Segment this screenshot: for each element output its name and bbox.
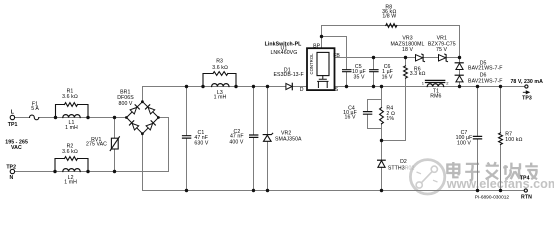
svg-text:BAV21WS-7-F: BAV21WS-7-F xyxy=(468,79,503,85)
node TP3 terminal xyxy=(525,85,528,88)
svg-text:75 V: 75 V xyxy=(436,47,447,53)
node BP branch junction xyxy=(320,35,323,38)
svg-text:1%: 1% xyxy=(386,116,394,122)
svg-text:SMAJ350A: SMAJ350A xyxy=(275,137,302,143)
inductor L1 xyxy=(63,115,80,118)
transformer T1 xyxy=(426,80,445,86)
svg-text:VAC: VAC xyxy=(11,145,22,151)
diode D2 xyxy=(378,160,386,167)
svg-text:3.3 kΩ: 3.3 kΩ xyxy=(410,71,426,77)
wire C1 column xyxy=(186,87,188,191)
svg-text:ES3DB-13-F: ES3DB-13-F xyxy=(273,72,303,78)
svg-text:78 V, 230 mA: 78 V, 230 mA xyxy=(510,79,543,85)
svg-text:TP2: TP2 xyxy=(6,164,16,170)
wire main rail right xyxy=(335,86,525,88)
wire R7 column xyxy=(500,87,502,191)
svg-text:1 mH: 1 mH xyxy=(214,95,227,101)
wire BP to C5 branch xyxy=(322,37,347,87)
node TP2 terminal xyxy=(10,169,14,173)
node C1 bottom / return rail xyxy=(185,189,188,192)
svg-text:16 V: 16 V xyxy=(345,114,356,120)
node R3-L3 left xyxy=(201,85,204,88)
node RV1 top / L line xyxy=(113,116,116,119)
capacitor C7 xyxy=(473,136,481,139)
svg-text:D6: D6 xyxy=(480,72,487,78)
svg-text:D: D xyxy=(300,87,304,93)
node R1-L1 left / L line xyxy=(54,116,57,119)
svg-text:5 A: 5 A xyxy=(31,106,39,112)
svg-text:TP3: TP3 xyxy=(522,95,532,101)
svg-text:1: 1 xyxy=(422,80,425,85)
wire R6 leads xyxy=(382,58,406,141)
svg-text:S: S xyxy=(335,87,339,93)
node C5 bottom / source rail xyxy=(345,85,348,88)
svg-text:FB: FB xyxy=(333,53,340,59)
wire D2 leads xyxy=(381,141,383,191)
wire N line xyxy=(15,118,169,172)
svg-text:3.6 kΩ: 3.6 kΩ xyxy=(62,149,78,155)
diode D1 xyxy=(286,83,292,89)
svg-text:400 V: 400 V xyxy=(229,139,243,145)
node TP1 terminal xyxy=(10,115,14,119)
capacitor C6 xyxy=(370,70,378,72)
svg-text:N: N xyxy=(9,175,13,181)
svg-text:100 V: 100 V xyxy=(457,140,471,146)
wire L line xyxy=(15,117,127,119)
node R6 bottom joins D2 column xyxy=(380,139,383,142)
svg-text:RM6: RM6 xyxy=(430,94,441,100)
wire FB line xyxy=(335,57,460,59)
svg-text:3.6 kΩ: 3.6 kΩ xyxy=(212,65,228,71)
node C6 bottom / source rail xyxy=(372,85,375,88)
node VR2 top / DC bus xyxy=(266,85,269,88)
bridge rectifier BR1 xyxy=(127,102,159,134)
wire bridge top riser xyxy=(142,87,144,102)
node zener string / D5 top xyxy=(458,56,461,59)
svg-text:100 kΩ: 100 kΩ xyxy=(505,137,522,143)
capacitor C4 xyxy=(364,112,372,115)
svg-text:2: 2 xyxy=(446,80,449,85)
svg-text:1 mH: 1 mH xyxy=(64,180,77,186)
resistor R7 xyxy=(499,133,503,145)
watermark CJK glyphs xyxy=(447,162,537,180)
svg-text:STTH3R02: STTH3R02 xyxy=(388,165,415,171)
wire C2 column xyxy=(253,87,255,191)
resistor R2 xyxy=(55,157,88,172)
node C6 top / FB line xyxy=(372,56,375,59)
wire bottom rail xyxy=(143,190,524,192)
resistor R1 xyxy=(56,103,89,118)
node R7 top / output line xyxy=(499,85,502,88)
node R2-L2 right / N line xyxy=(86,170,89,173)
svg-text:18 V: 18 V xyxy=(402,47,413,53)
wire main rail left xyxy=(143,86,308,88)
capacitor C1 xyxy=(183,136,191,138)
node C7 top / output line xyxy=(476,85,479,88)
svg-text:1/8 W: 1/8 W xyxy=(382,14,396,20)
varistor RV1 xyxy=(110,137,119,151)
node C2 top / DC bus xyxy=(252,85,255,88)
svg-text:1 mH: 1 mH xyxy=(65,125,78,131)
node D6 bottom / output line xyxy=(458,85,461,88)
svg-text:16 V: 16 V xyxy=(382,75,393,81)
node D2 bottom / return rail xyxy=(380,189,383,192)
inductor L2 xyxy=(63,169,80,172)
svg-text:CONTROL: CONTROL xyxy=(309,53,314,75)
node VR2 bottom / return rail xyxy=(266,189,269,192)
svg-text:R3: R3 xyxy=(216,58,223,64)
wire VR2 column xyxy=(267,87,269,191)
arrow under TP3 xyxy=(523,91,529,94)
wire top rail BP-R8 xyxy=(322,26,460,58)
resistor R3 xyxy=(203,72,236,87)
resistor R6 xyxy=(404,66,408,78)
capacitor C2 xyxy=(250,135,258,137)
wire C4 R4 branch xyxy=(368,87,382,141)
node R3-L3 right xyxy=(234,85,237,88)
svg-text:www.elecfans.com: www.elecfans.com xyxy=(446,177,554,191)
zener VR1 xyxy=(439,54,448,62)
svg-text:PI-6890-030012: PI-6890-030012 xyxy=(475,194,510,200)
svg-text:D2: D2 xyxy=(400,159,407,165)
svg-text:LNK460VG: LNK460VG xyxy=(270,50,297,56)
diode D6 xyxy=(455,75,463,82)
wire RV1 column xyxy=(114,118,116,172)
watermark logo circle xyxy=(410,160,444,194)
node RV1 bottom / N line xyxy=(113,170,116,173)
node R6 top / FB line xyxy=(404,56,407,59)
svg-text:BAV21WS-7-F: BAV21WS-7-F xyxy=(468,66,503,72)
node C7 bottom / return rail xyxy=(476,189,479,192)
node C1 top / DC bus xyxy=(185,85,188,88)
node C4-R4 tap / source rail xyxy=(380,85,383,88)
wire C6 column xyxy=(373,58,375,87)
node R2-L2 left / N line xyxy=(53,170,56,173)
svg-text:TP1: TP1 xyxy=(8,122,18,128)
svg-text:BP: BP xyxy=(313,43,321,49)
zener VR3 xyxy=(416,54,425,62)
wire bridge bottom riser xyxy=(142,134,144,191)
svg-text:35 V: 35 V xyxy=(354,75,365,81)
op-amp U1 LinkSwitch-PL box xyxy=(307,48,335,90)
node TP4 terminal xyxy=(524,189,527,192)
wire C7 column xyxy=(477,87,479,191)
svg-text:RTN: RTN xyxy=(521,195,532,201)
svg-text:630 V: 630 V xyxy=(194,140,208,146)
svg-text:L: L xyxy=(11,110,15,116)
resistor R8 xyxy=(386,24,397,28)
svg-text:TP4: TP4 xyxy=(520,175,530,181)
node R7 bottom / return rail xyxy=(499,189,502,192)
node bridge vertices xyxy=(125,100,160,135)
resistor R4 xyxy=(380,108,384,124)
diode D5 xyxy=(455,63,463,70)
inductor L3 xyxy=(212,84,229,87)
node R1-L1 right / L line xyxy=(86,116,89,119)
svg-text:800 V: 800 V xyxy=(119,101,133,107)
zener VR2 xyxy=(263,133,272,141)
svg-text:3.6 kΩ: 3.6 kΩ xyxy=(62,94,78,100)
svg-text:275 VAC: 275 VAC xyxy=(86,142,107,148)
fuse F1 xyxy=(30,115,39,120)
node C2 bottom / return rail xyxy=(252,189,255,192)
wire D5 D6 column xyxy=(459,58,461,87)
capacitor C5 xyxy=(343,70,351,72)
